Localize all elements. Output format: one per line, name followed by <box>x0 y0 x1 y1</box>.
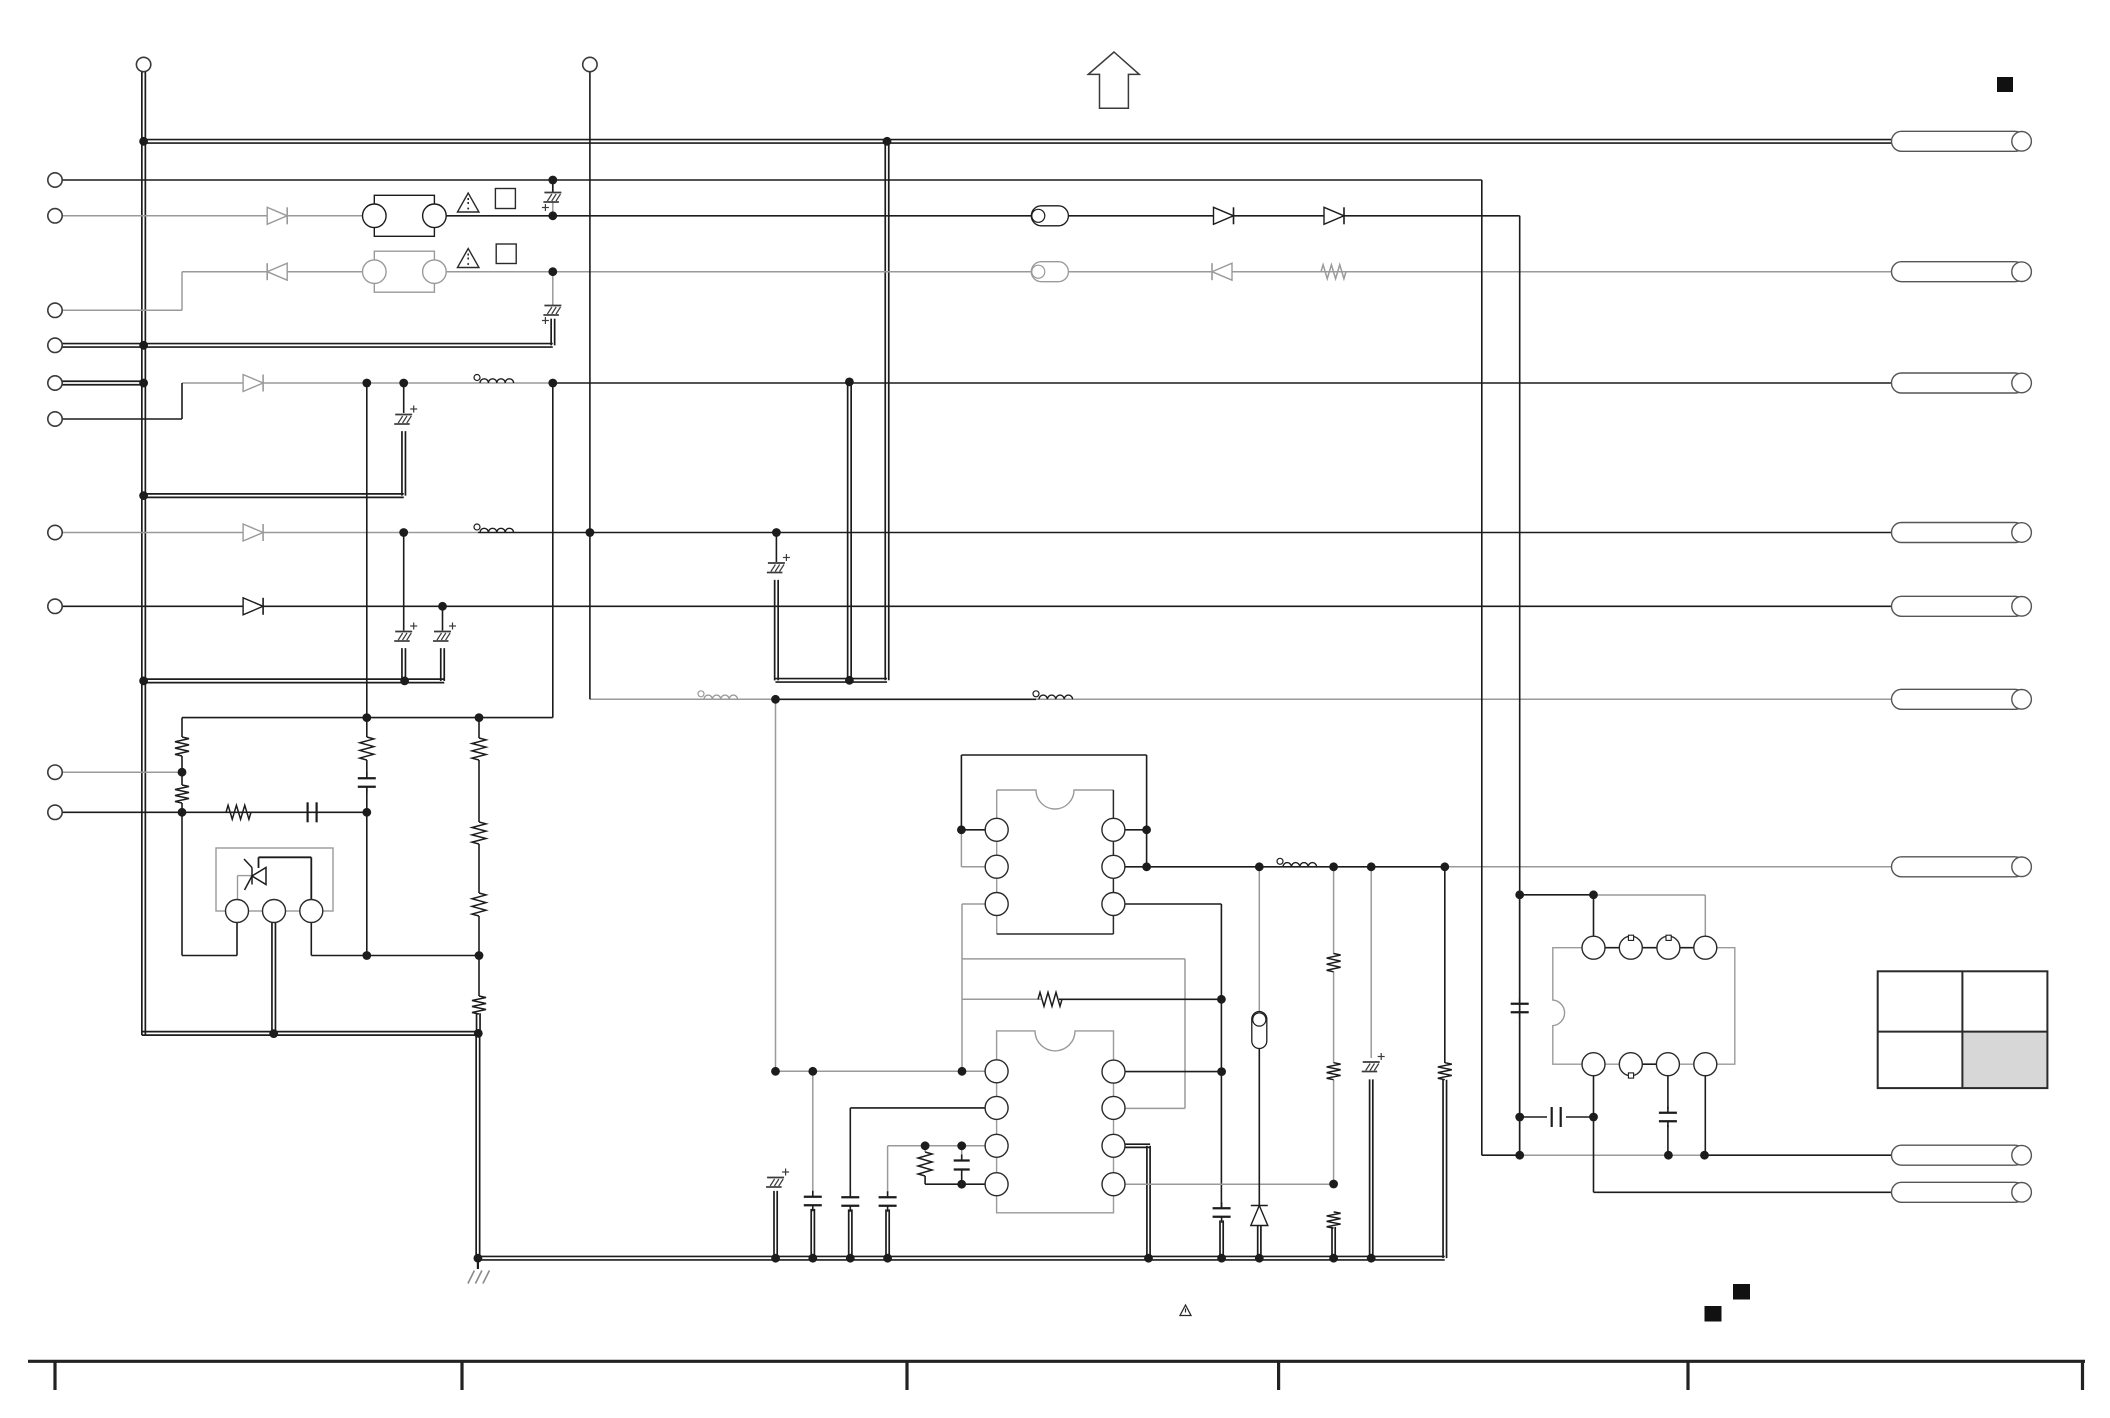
wire: row y=772.2 gray <box>55 771 182 773</box>
IC U3 body <box>1553 948 1735 1064</box>
node junction at 1148.5,1258.2 <box>1144 1254 1153 1263</box>
wire: x=812.8 cap top lead <box>812 1071 814 1192</box>
node junction at 1259.3,866.8 <box>1255 862 1264 871</box>
node junction at 182,812.3 <box>178 808 187 817</box>
wire: bus terminal stub y=383 <box>53 381 145 385</box>
terminal T1 top <box>136 57 150 71</box>
node junction at 143.6,345.3 <box>139 341 148 350</box>
wire: bus segment y=680 right <box>775 679 887 683</box>
node junction at 552.8,271.7 <box>548 267 557 276</box>
terminal T6 <box>48 338 62 352</box>
connector CN2 <box>1892 262 2032 282</box>
node junction at 1593.5,1117 <box>1589 1113 1598 1122</box>
regulator pins <box>226 900 249 923</box>
node junction at 1371.2,866.8 <box>1367 862 1376 871</box>
node junction at 961.4,829.8 <box>957 825 966 834</box>
wire: x=1333.6 gray segments <box>1333 867 1335 954</box>
node junction at 479,955.5 <box>475 951 484 960</box>
thyristor Q1 <box>244 859 266 890</box>
wire: IC3 pin1 top lead <box>1593 895 1595 937</box>
wire: bus y=495.6 from main bus <box>142 494 404 498</box>
wire: row y=215.8 right <box>373 215 1520 217</box>
diode D4 row532 <box>243 524 263 541</box>
node junction at 961.7,1145.8 <box>957 1141 966 1150</box>
resistor R3 x=366.8 <box>360 737 374 760</box>
capacitor C13 x=961.9 <box>954 1155 970 1176</box>
resistor R7 x=479 <box>472 893 486 916</box>
square mark 2 <box>496 244 516 264</box>
wire: vertical bus x=887 from B+ rail <box>885 140 889 681</box>
wire: row y=999.3 gray part <box>962 998 1041 1000</box>
wire: thick lead x=887.6 cap to ground bus <box>886 1209 889 1258</box>
electrolytic C9 x=775.6 <box>766 1169 789 1188</box>
wire: ground bus y=1258.2 <box>476 1256 1445 1260</box>
wire: E2 top lead <box>552 272 554 306</box>
terminal T12 <box>48 805 62 819</box>
capacitor C8 horizontal row812 <box>308 802 317 822</box>
regulator internal wires <box>259 856 312 858</box>
wire: row y=894.8 black <box>1520 894 1594 896</box>
wire: IC2 pin3 row gray <box>888 1145 986 1147</box>
wire: bus cap lead x=776.4 y=582-680 <box>775 580 779 681</box>
wire: x=1519.7 cap area <box>1519 895 1521 1155</box>
wire: row y=383 gray mid <box>182 382 553 384</box>
inductor L3 row699 <box>698 691 738 700</box>
wire: row y=866.8 black <box>1147 866 1446 868</box>
connector CN3 <box>1892 373 2032 393</box>
wire: vertical x=589.9 from top terminal <box>589 72 591 700</box>
capacitor C17 horizontal row1117 <box>1552 1107 1561 1127</box>
node junction at 775.5,1071.3 <box>771 1067 780 1076</box>
node junction at 404.6,680.9 <box>400 677 409 686</box>
wire: row y=1192.3 <box>1594 1191 1892 1193</box>
capacitor C11 x=850.3 <box>841 1191 859 1212</box>
resistor R10 row271 <box>1321 265 1346 279</box>
diode D1 row215 <box>267 207 287 224</box>
node junction at 1221.6,1258.2 <box>1217 1254 1226 1263</box>
connector CN1 <box>1892 131 2032 151</box>
node junction at 1668.4,1155.2 <box>1664 1151 1673 1160</box>
wire: bus x=477.9 down to ground bus <box>476 1033 480 1258</box>
electrolytic C2 x=553 <box>542 306 562 325</box>
resistor R15 x=1445.6 <box>1438 1063 1452 1080</box>
ground <box>477 1260 479 1269</box>
node junction at 849.4,680.3 <box>845 676 854 685</box>
node junction at 143.6,383 <box>139 379 148 388</box>
wire: IC3 pin4b lead <box>1704 1076 1706 1156</box>
resistor R4 horizontal row812 <box>226 805 251 819</box>
fuse F2 <box>363 251 447 292</box>
node junction at 478.3,1033.4 <box>474 1029 483 1038</box>
wire: thick lead x=1371.2 elect to ground bus <box>1370 1079 1373 1258</box>
diode D2 row271 <box>267 263 287 280</box>
wire: main horizontal bus B+ rail y=141 <box>142 140 1893 144</box>
wire: thick lead x=1333.6 resistor to ground bus <box>1332 1227 1335 1258</box>
node junction at 775.6,1258.2 <box>771 1254 780 1263</box>
electrolytic C3 x=403.7 <box>394 406 417 425</box>
node junction at 273.7,1033.6 <box>269 1029 278 1038</box>
wire: bus cap lead x=403.7 y=648-681 <box>402 648 406 681</box>
node junction at 850.3,1258.2 <box>846 1254 855 1263</box>
node junction at 1221.6,1071.6 <box>1217 1067 1226 1076</box>
black square marker top right <box>1997 77 2013 92</box>
wire: bus IC2 pin6 L-lead <box>1122 1144 1150 1147</box>
node junction at 962,1071.3 <box>958 1067 967 1076</box>
wire: x=366.8 vertical <box>366 383 368 737</box>
wire: x=552.8 y=383-717.6 <box>552 383 554 718</box>
wire: row y=310.3 gray <box>55 309 182 311</box>
inductor L1 row383 <box>474 375 514 384</box>
diode D6 row215 <box>1214 207 1234 224</box>
node junction at 1146.6,829.8 <box>1142 825 1151 834</box>
node junction at 1519.7,1155.2 <box>1515 1151 1524 1160</box>
black square marker bottom 2 <box>1705 1306 1722 1322</box>
warning triangle 1 <box>457 193 479 212</box>
wire: vertical bus x=849.4 <box>848 379 852 680</box>
resistor R5 x=479 <box>472 738 486 760</box>
wire: IC3 pin1 bottom chain <box>1593 1076 1595 1193</box>
wire: thick lead x=1259.3 diode to ground bus <box>1258 1224 1261 1258</box>
wire: cap x=961.9 leads <box>961 1146 963 1156</box>
capacitor C12 x=887.6 <box>879 1191 897 1212</box>
wire: x=775.5 gray vertical <box>775 699 777 1071</box>
wire: corner terminal y=419 <box>55 418 182 420</box>
wire: row y=1155.2 ends <box>1482 1154 1520 1156</box>
wire: row y=1155.2 gray part <box>1520 1154 1705 1156</box>
square mark 1 <box>495 189 515 209</box>
terminal T2 top <box>583 57 597 71</box>
electrolytic C4 x=403.7 <box>394 623 417 642</box>
wire: IC1 outer left edge gray <box>960 830 962 867</box>
IC U3 pin marks (small squares) <box>1628 935 1633 940</box>
wire: thick lead x=775.6 elect to ground bus <box>774 1191 777 1258</box>
wire: bus bottom rail y=1033.4 <box>142 1032 480 1036</box>
op-amp U1 pins <box>985 818 1008 841</box>
node junction at 366.8,383 <box>362 379 371 388</box>
capsule bead FB2 row271 <box>1031 262 1068 282</box>
node junction at 812.8,1071.3 <box>808 1067 817 1076</box>
inductor L2 row532 <box>474 524 514 533</box>
resistor R9 horizontal row999 <box>1038 992 1062 1006</box>
wire: row y=1117 cap link <box>1520 1116 1547 1118</box>
terminal T7 <box>48 376 62 390</box>
node junction at 1593.5,894.8 <box>1589 890 1598 899</box>
node junction at 366.8,955.5 <box>362 951 371 960</box>
wire: row y=812.3 <box>55 811 367 813</box>
node junction at 849.4,381.9 <box>845 378 854 387</box>
wire: E1 leads <box>552 180 554 193</box>
node junction at 403.7,383 <box>399 379 408 388</box>
node junction at 1371.2,1258.2 <box>1367 1254 1376 1263</box>
wire: IC2 pin4L row <box>924 1146 926 1152</box>
wire: bus regulator center pin lead x=273.7 <box>272 921 276 1034</box>
wire: thick lead x=1221.6 cap to ground bus <box>1220 1220 1223 1258</box>
wire: row y=383 right <box>553 382 1892 384</box>
resistor R8 x=479 <box>472 996 486 1014</box>
connector CN4 <box>1892 523 2032 543</box>
wire: row y=271.7 gray <box>182 271 1892 273</box>
resistor R1 x=182 <box>175 737 189 756</box>
node junction at 182,772.2 <box>178 768 187 777</box>
wire: x=776.4 cap top lead <box>775 533 777 563</box>
op-amp U2 body <box>997 1031 1114 1213</box>
wire: IC3 top gray lead right <box>1594 894 1706 896</box>
node junction at 479,717.6 <box>475 713 484 722</box>
wire: x=442.5 cap lead <box>442 606 444 630</box>
wire: IC2 pin2L lead black <box>850 1107 985 1109</box>
node junction at 1704.5,1155.2 <box>1700 1151 1709 1160</box>
wire: row y=606.3 <box>55 605 1892 607</box>
inductor L5 row866 <box>1277 858 1317 867</box>
node junction at 1333.6,1258.2 <box>1329 1254 1338 1263</box>
op-amp U2 pins <box>985 1060 1008 1083</box>
node junction at 1259.3,1258.2 <box>1255 1254 1264 1263</box>
wire: bus cap lead x=553 y=318-345 <box>551 319 555 346</box>
wire: bus x=478.3 resistor to bottom rail <box>477 1013 481 1033</box>
wire: row y=866.8 gray right part <box>1446 866 1892 868</box>
IC U3 pin link wires <box>1594 947 1706 949</box>
wire: thick lead x=812.8 cap to ground bus <box>811 1209 814 1258</box>
wire: bus segment y=681 left (ground return) <box>142 679 444 683</box>
wire: x=1481.8 down <box>1481 180 1483 1155</box>
wire: corner x=182 y=271-310 <box>181 272 183 311</box>
terminal T4 <box>48 209 62 223</box>
node junction at 1221.4,999.3 <box>1217 995 1226 1004</box>
terminal T10 <box>48 599 62 613</box>
wire: x=1259.3 gray to pill fuse <box>1258 867 1260 1013</box>
diode D9 x=1259.3 <box>1251 1206 1268 1226</box>
capacitor C18 x=1667.9 <box>1659 1107 1677 1128</box>
wire: regulator pin3 lead <box>310 922 312 955</box>
node junction at 887,141.3 <box>883 137 892 146</box>
wire: bus cap lead x=442.5 y=648-681 <box>441 648 445 681</box>
fuse F1 <box>363 195 447 236</box>
op-amp U1 body <box>997 790 1114 809</box>
terminal T9 <box>48 525 62 539</box>
wire: row y=699.3 black mid <box>776 698 1037 700</box>
node junction at 1444.8,866.8 <box>1440 862 1449 871</box>
diode D5 row606 <box>243 598 263 615</box>
capacitor C16 x=1519.7 <box>1511 998 1529 1019</box>
resistor R6 x=479 <box>472 822 486 844</box>
resistor R11 x=925.1 <box>918 1152 932 1176</box>
big up arrow symbol <box>1088 52 1139 108</box>
node junction at 1519.7,1117 <box>1515 1113 1524 1122</box>
terminal T8 <box>48 412 62 426</box>
node junction at 961.7,1184.2 <box>957 1180 966 1189</box>
small warning triangle bottom <box>1180 1305 1191 1316</box>
terminal T5 <box>48 303 62 317</box>
connector CN7 <box>1892 857 2032 877</box>
resistor R14 x=1333.6 <box>1327 1212 1341 1228</box>
wire: row y=215.8 left gray <box>55 215 373 217</box>
resistor R12 x=1333.6 <box>1327 954 1341 972</box>
connector CN5 <box>1892 596 2032 616</box>
wire: IC2 pin5 row gray <box>1124 1183 1334 1185</box>
resistor R2 x=182 <box>175 785 189 803</box>
node junction at 1333.6,1184.0 <box>1329 1180 1338 1189</box>
fuse pill F3 x=1259.3 vertical <box>1252 1012 1267 1049</box>
node junction at 366.8,717.6 <box>362 713 371 722</box>
wire: row y=532.5 right black <box>478 532 1892 534</box>
black square marker bottom 1 <box>1733 1284 1750 1300</box>
wire: IC1 top loop <box>961 829 985 831</box>
capacitor C14 x=1221.6 <box>1213 1202 1231 1223</box>
bottom fold ruler <box>28 1361 2085 1390</box>
connector CN9 <box>1892 1182 2032 1202</box>
capsule bead FB1 row215 <box>1031 206 1068 226</box>
wire: x=479 resistor chain <box>478 718 480 738</box>
electrolytic C5 x=442.5 <box>433 623 456 642</box>
diode D3 row383 <box>243 375 263 392</box>
node junction at 925.1,1145.8 <box>921 1141 930 1150</box>
wire: row y=955.5 right <box>311 955 479 957</box>
connector CN8 <box>1892 1145 2032 1165</box>
wire: IC3 pin3b cap chain <box>1667 1076 1669 1110</box>
terminal T11 <box>48 765 62 779</box>
wire: IC2 pin8 row gray <box>1124 1071 1222 1073</box>
IC U3 pins top <box>1582 936 1605 959</box>
regulator outline box <box>216 848 333 911</box>
node junction at 1333.6,866.8 <box>1329 862 1338 871</box>
wire: row y=180 <box>55 179 1482 181</box>
wire: x=1445.6 upper black <box>1444 867 1446 1063</box>
wire: x=1519.7 down <box>1519 216 1521 1155</box>
node junction at 403.7,532.5 <box>399 528 408 537</box>
wire: vertical bus from top terminal x=143.6 <box>142 70 146 1035</box>
wire: row y=699.3 gray <box>590 698 1892 700</box>
wire: x=182 resistor chain <box>181 718 183 737</box>
node junction at 776.4,532.5 <box>772 528 781 537</box>
wire: x=1259.3 black lower <box>1258 1046 1260 1205</box>
node junction at 589.9,532.5 <box>586 528 595 537</box>
electrolytic C1 x=553 <box>542 193 562 212</box>
node junction at 1519.7,894.8 <box>1515 890 1524 899</box>
wire: row y=955.5 left <box>182 955 237 957</box>
terminal T3 <box>48 173 62 187</box>
node junction at 887.6,1258.2 <box>883 1254 892 1263</box>
wire: row y=532.5 gray left <box>55 532 478 534</box>
node junction at 775.5,699.3 <box>771 695 780 704</box>
wire: IC2 pin1 row gray <box>776 1070 986 1072</box>
node junction at 552.8,383 <box>548 379 557 388</box>
node junction at 366.8,812.3 <box>362 808 371 817</box>
electrolytic C15 x=1371.2 <box>1362 1053 1385 1072</box>
electrolytic C6 x=776.4 <box>767 554 790 573</box>
node junction at 552.8,180 <box>548 176 557 185</box>
revision table <box>1878 971 2048 1088</box>
wire: bus terminal row y=345 <box>53 344 553 348</box>
wire: x=1371.2 gray to elect <box>1370 867 1372 1058</box>
capacitor C10 x=812.8 <box>804 1191 822 1212</box>
wire: x=403.7 cap leads <box>403 383 405 413</box>
resistor R13 x=1333.6 <box>1327 1063 1341 1080</box>
wire: bus cap lead x=403.7 y=431-495.6 <box>402 431 406 496</box>
capacitor C7 x=366.8 <box>358 772 376 793</box>
diode D8 row271 <box>1212 263 1232 280</box>
wire: row y=717.6 <box>182 717 553 719</box>
wire: x=182 below 812 <box>181 812 183 955</box>
wire: regulator pin1 lead <box>236 922 238 955</box>
wire: IC1 pin3L path gray <box>962 903 985 905</box>
wire: IC1 pin3R path <box>1125 903 1222 905</box>
node junction at 552.8,215.8 <box>548 211 557 220</box>
node junction at 442.5,606.3 <box>438 602 447 611</box>
warning triangle 2 <box>457 249 479 268</box>
node junction at 143.6,495.6 <box>139 491 148 500</box>
wire: row y=999.3 black part <box>1059 998 1221 1000</box>
IC U3 pins bottom <box>1582 1053 1605 1076</box>
node junction at 812.8,1258.2 <box>808 1254 817 1263</box>
wire: thick lead x=850.3 cap to ground bus <box>849 1209 852 1258</box>
inductor L4 row699 <box>1033 691 1073 700</box>
connector CN6 <box>1892 689 2032 709</box>
node junction at 143.6,141.3 <box>139 137 148 146</box>
node junction at 1146.6,866.8 <box>1142 862 1151 871</box>
node junction at 143.6,680.9 <box>139 677 148 686</box>
diode D7 row215 <box>1324 207 1344 224</box>
wire: bus right end up x=1444 <box>1443 1080 1447 1258</box>
